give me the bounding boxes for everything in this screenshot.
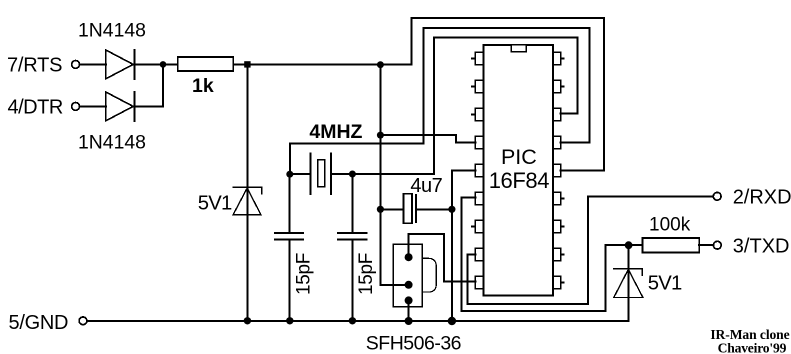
crystal X1 4MHZ (311, 153, 331, 194)
wire PIC pin6-left loop to 100k node (462, 198, 643, 311)
wire D1 cathode to resistor R1 (135, 63, 178, 65)
wire rail R1 to outer loop (233, 63, 411, 65)
SFH pin 2 (405, 281, 413, 289)
wire to PIC pin4-left (380, 135, 475, 142)
wire crystal left plate to node (290, 173, 311, 175)
svg-text:4/DTR: 4/DTR (8, 97, 63, 119)
wire 100k to 3/TXD (699, 244, 713, 246)
junction 100k left (625, 241, 633, 249)
junction GND x408 (405, 317, 413, 325)
wire 4u7 left (380, 208, 403, 210)
junction crystal right (349, 171, 356, 178)
junction pin4 wire (377, 132, 384, 139)
junction GND x289 (286, 317, 293, 324)
svg-text:5V1: 5V1 (198, 192, 232, 214)
wire right 15pF bottom (351, 239, 353, 320)
wire 4u7 right (416, 208, 452, 210)
svg-text:16F84: 16F84 (489, 168, 550, 193)
wire zener ZD2 branch (628, 245, 630, 321)
node A junction diodes (160, 61, 167, 68)
svg-text:Chaveiro'99: Chaveiro'99 (718, 340, 787, 354)
node 2/RXD terminal (713, 192, 721, 200)
capacitor C2 15pF (338, 233, 366, 239)
svg-text:5V1: 5V1 (648, 272, 682, 294)
wire RTS to D1 (80, 63, 106, 65)
svg-text:100k: 100k (649, 214, 691, 235)
SFH pin 1 (405, 253, 413, 261)
junction 4u7 left (377, 206, 384, 213)
svg-text:15pF: 15pF (294, 253, 315, 295)
svg-text:1k: 1k (192, 75, 214, 97)
svg-text:2/RXD: 2/RXD (733, 187, 791, 209)
wire left 15pF top (289, 174, 291, 233)
wire D2 cathode up to node A (135, 64, 164, 106)
node 4/DTR terminal (72, 103, 80, 111)
wire left 15pF bottom (289, 239, 291, 320)
svg-text:SFH506-36: SFH506-36 (366, 332, 461, 354)
U1 left pin stubs (472, 59, 476, 227)
node 3/TXD terminal (713, 241, 721, 249)
node 5/GND terminal (79, 317, 87, 325)
wire third loop PIC pin3-right to crystal right (331, 37, 577, 174)
U1 left pin boxes pins 1-9 (475, 52, 483, 288)
junction GND x451 (448, 317, 456, 325)
zener ZD2 5V1 (614, 269, 643, 298)
wire right 15pF top (351, 174, 353, 233)
zener ZD1 5V1 (233, 187, 262, 214)
wire PIC pin8-left loop to 2/RXD (468, 196, 713, 304)
capacitor C1 15pF (275, 233, 303, 239)
wire DTR to D2 (80, 105, 106, 107)
junction rail x380 (377, 61, 384, 68)
svg-text:15pF: 15pF (356, 253, 377, 295)
diode D1 1N4148 (106, 50, 135, 79)
svg-text:4MHZ: 4MHZ (309, 121, 362, 143)
wire second loop PIC pin4-right to crystal left (290, 28, 589, 174)
SFH pin 3 (405, 296, 413, 304)
svg-text:1N4148: 1N4148 (78, 132, 146, 154)
wire 4u7 node down to GND (451, 209, 453, 320)
resistor R1 1k (178, 57, 234, 71)
node 7/RTS terminal (72, 61, 80, 69)
junction 4u7 right (448, 206, 455, 213)
wire GND row (87, 320, 628, 322)
junction crystal left (286, 171, 293, 178)
svg-text:1N4148: 1N4148 (78, 20, 146, 42)
wire 4u7 node to PIC pin5-left (452, 170, 476, 209)
svg-text:5/GND: 5/GND (9, 312, 69, 334)
U1 right pin boxes pins 10-18 (553, 52, 560, 288)
IC U1 PIC16F84 body (484, 45, 554, 296)
diode D2 1N4148 (106, 92, 135, 121)
IR receiver U2 SFH506-36 (393, 244, 436, 306)
capacitor C3 4u7 (404, 194, 417, 224)
wire SFH pin1 loop to PIC pin9-left (409, 234, 476, 282)
svg-text:PIC: PIC (501, 145, 537, 169)
wire SFH pin3 to GND (408, 300, 410, 320)
wire vertical RB-rail from rail to SFH pin2 (380, 64, 408, 284)
U1 right pin stubs (561, 59, 564, 283)
wire zener ZD1 branch (246, 64, 248, 320)
svg-text:3/TXD: 3/TXD (733, 236, 790, 258)
node B junction square after R1 (244, 61, 250, 67)
resistor R2 100k (642, 238, 699, 253)
junction GND x352 (349, 317, 356, 324)
wire outer loop to PIC pin5-right (412, 18, 605, 170)
svg-text:4u7: 4u7 (410, 175, 442, 197)
svg-text:7/RTS: 7/RTS (7, 54, 62, 76)
junction GND x247 (244, 317, 251, 324)
